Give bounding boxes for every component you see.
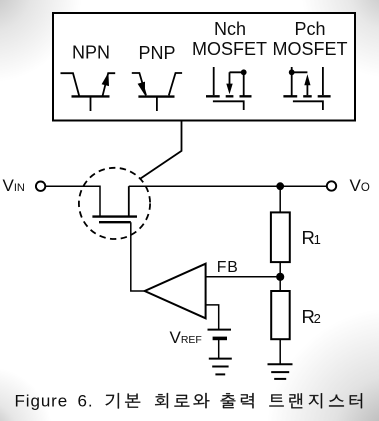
transistor PNP symbol — [132, 73, 182, 111]
junction node FB — [276, 273, 284, 281]
leader line from box to output transistor — [140, 121, 182, 179]
dashed circle around output transistor — [79, 168, 150, 239]
wire node to R1 — [279, 186, 281, 212]
svg-text:R1: R1 — [302, 227, 321, 248]
resistor R1 — [271, 212, 290, 262]
terminal VO — [327, 181, 336, 190]
terminal VIN — [36, 182, 45, 191]
caption korean word 회로와 — [155, 393, 209, 408]
wire R2 to ground — [279, 339, 281, 364]
op-amp error amplifier — [145, 264, 206, 319]
wire R1 to FB node — [279, 262, 281, 291]
svg-text:Figure6.: Figure6. — [15, 391, 94, 410]
svg-text:PNP: PNP — [138, 43, 175, 63]
transistor NPN symbol — [61, 73, 116, 111]
svg-text:NPN: NPN — [72, 43, 110, 63]
wire FB to error amp input — [206, 276, 281, 278]
junction node at R1 top — [276, 182, 284, 190]
svg-text:MOSFET: MOSFET — [192, 39, 267, 59]
caption korean word 출력 — [221, 393, 254, 408]
svg-text:FB: FB — [217, 259, 239, 276]
caption korean word 트랜지스터 — [269, 393, 362, 408]
transistor Nch MOSFET symbol — [206, 67, 252, 110]
transistor type box — [53, 13, 355, 121]
svg-text:VREF: VREF — [170, 328, 202, 347]
wire VIN to transistor source — [45, 186, 100, 216]
output transistor pass MOSFET — [92, 186, 137, 222]
svg-text:VIN: VIN — [3, 176, 25, 195]
wire error amp output to gate — [131, 222, 145, 291]
svg-text:Pch: Pch — [294, 19, 325, 39]
svg-text:Nch: Nch — [214, 19, 246, 39]
svg-text:MOSFET: MOSFET — [273, 39, 348, 59]
ground below R2 — [268, 364, 293, 379]
resistor R2 — [271, 291, 290, 339]
svg-text:VO: VO — [350, 176, 370, 195]
transistor Pch MOSFET symbol — [283, 67, 330, 110]
wire VREF input stub — [206, 305, 219, 329]
reference VREF symbol — [208, 330, 232, 359]
ground below VREF — [209, 359, 232, 375]
svg-text:R2: R2 — [302, 306, 321, 327]
caption korean word 기본 — [105, 393, 140, 408]
wire transistor drain to VO — [129, 185, 327, 187]
